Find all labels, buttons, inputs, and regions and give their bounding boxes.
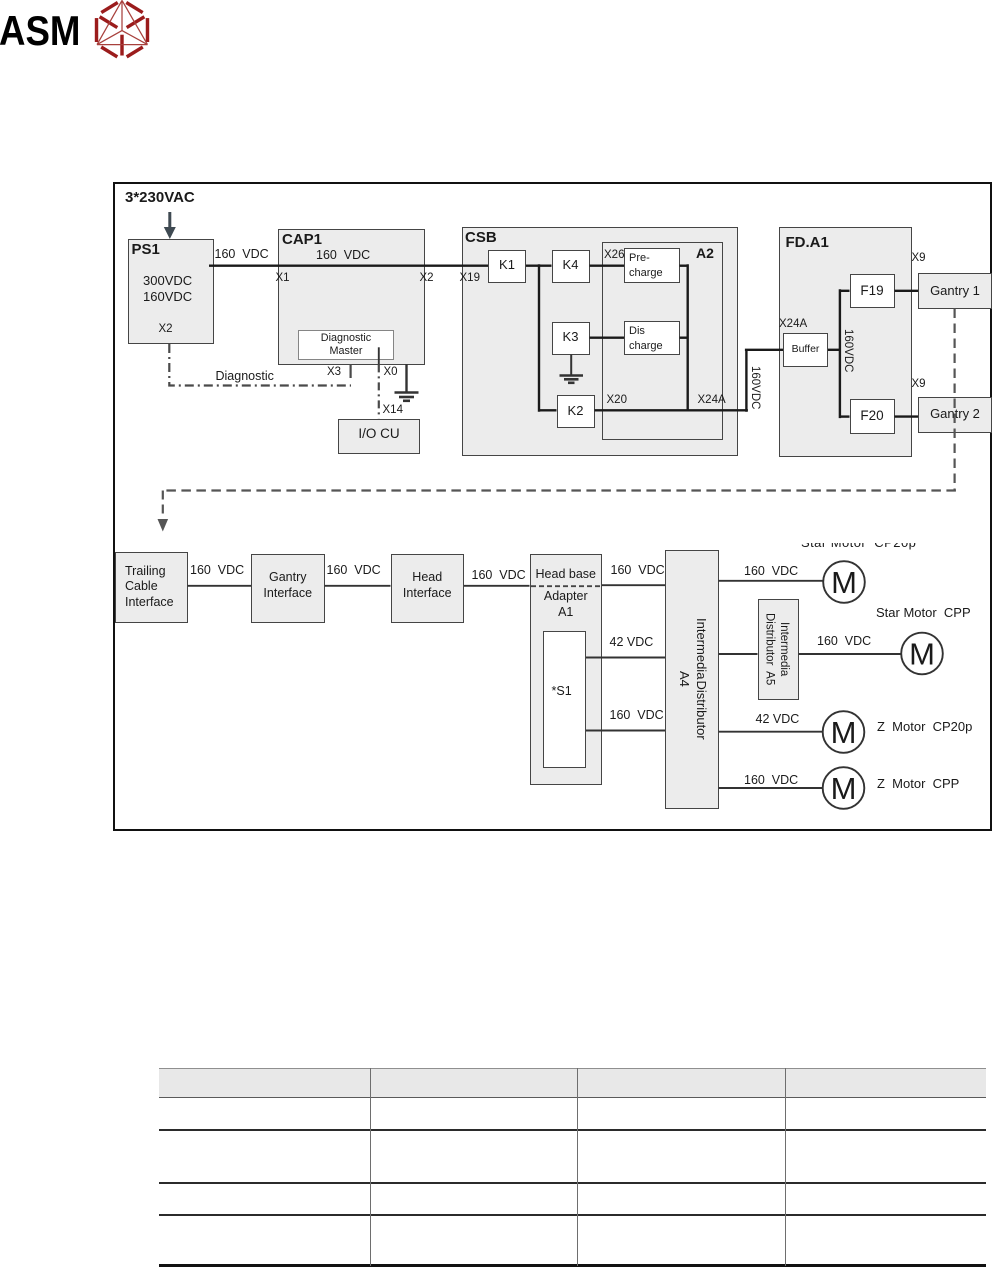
motor M Z CPP	[823, 767, 865, 809]
discharge unit	[624, 321, 680, 355]
wire K3 to discharge	[590, 337, 625, 339]
ASM logo hexagon icon	[0, 0, 993, 80]
label Star Motor CPP	[876, 606, 971, 620]
wire K1 to node	[526, 265, 552, 267]
Gantry 2 box	[918, 397, 992, 433]
Intermedia Distributor A4 box	[665, 550, 719, 809]
fuse distributor FD.A1	[779, 227, 912, 457]
label 3*230VAC	[125, 190, 195, 207]
text Intermedia Distributor A5 vertical	[762, 599, 791, 699]
capacitor unit CAP1	[278, 229, 425, 365]
label X9 bottom	[912, 378, 926, 391]
label 42 VDC motor3	[756, 713, 800, 727]
text Gantry Interface	[251, 570, 325, 602]
text K1	[488, 258, 526, 272]
text Pre-charge	[629, 251, 663, 280]
text Intermedia Distributor A4 vertical	[676, 550, 710, 808]
text Discharge	[629, 324, 663, 353]
ground stem K3	[570, 355, 572, 375]
wire S1 to A4 42VDC	[586, 657, 665, 659]
wire pre-charge to right bus	[680, 265, 688, 267]
wire K4 to pre-charge	[590, 265, 625, 267]
Diagnostic Master module	[298, 330, 394, 360]
switch S1 box	[543, 631, 586, 768]
CSB box	[462, 227, 738, 457]
text PS1 300VDC 160VDC	[143, 273, 192, 305]
I/O CU box	[338, 419, 420, 454]
svg-text:M: M	[831, 715, 857, 750]
X3 stub wire	[350, 364, 352, 378]
wire A5 to star motor CPP	[799, 653, 902, 655]
label 160 VDC after PS1	[215, 248, 269, 262]
label X1	[276, 272, 290, 285]
motor M Z CP20p	[823, 711, 865, 753]
buffer module	[783, 333, 828, 367]
wire F20 to Gantry 2	[895, 415, 919, 417]
text S1	[552, 685, 572, 699]
dashed link horizontal	[164, 489, 956, 491]
module A2	[602, 242, 723, 440]
label 160 VDC motor2	[817, 635, 871, 649]
wire bus to F19	[840, 290, 850, 292]
wire A4 to A5	[719, 653, 758, 655]
svg-text:M: M	[831, 565, 857, 600]
label X24A at Buffer	[779, 318, 807, 331]
contactor K1	[488, 250, 526, 283]
label A2	[696, 246, 714, 261]
table row line 2	[159, 1182, 986, 1184]
table column separator 3	[785, 1068, 786, 1266]
label X19	[460, 272, 480, 285]
table row line 3	[159, 1214, 986, 1216]
label FD.A1	[786, 235, 829, 252]
text Gantry 2	[918, 407, 992, 421]
contactor K2	[557, 395, 595, 428]
label X24A at A2	[698, 394, 726, 407]
wire A4 to star motor CP20p	[719, 580, 824, 582]
text I/O CU	[338, 427, 420, 442]
wire S1 to A4 160VDC	[586, 730, 665, 732]
vertical fuse bus 160VDC	[839, 289, 841, 418]
table header row	[159, 1068, 986, 1099]
contactor K4	[552, 250, 590, 283]
wire TCI to Gantry Interface	[188, 585, 252, 587]
svg-text:M: M	[831, 771, 857, 806]
label 160 VDC left lower	[610, 709, 664, 723]
wire A4 to Z motor CPP	[719, 787, 823, 789]
text Head base	[530, 568, 603, 582]
wire PS1 to K1 160VDC bus	[209, 265, 488, 267]
input arrow 3*230VAC	[164, 212, 176, 239]
Trailing Cable Interface box	[115, 552, 188, 623]
label X0	[384, 366, 398, 379]
text F19	[850, 284, 895, 299]
label 160 VDC in CAP1	[316, 249, 370, 263]
text K2	[557, 404, 595, 418]
wire Head base to A4 160VDC	[602, 584, 665, 586]
vertical bus K1-K2	[538, 264, 540, 412]
dashed link Gantry1/2 down	[953, 309, 955, 492]
label X26	[604, 249, 624, 262]
label 160 VDC right of head base	[611, 564, 665, 578]
label Diagnostic	[216, 370, 274, 384]
label 160 VDC lower 3	[472, 569, 526, 583]
wire bus to F20	[840, 415, 850, 417]
label 160VDC vertical FD.A1	[842, 329, 855, 372]
vertical wire 160VDC riser	[745, 350, 747, 412]
power supply PS1	[128, 239, 214, 344]
table column separator 2	[577, 1068, 578, 1266]
wire Buffer to fuse bus	[828, 349, 840, 351]
svg-text:M: M	[909, 637, 935, 672]
X0 stub wire from Diagnostic Master	[378, 347, 380, 364]
motor M star CPP	[901, 633, 943, 675]
text K4	[552, 258, 590, 272]
label X3	[327, 366, 341, 379]
Gantry 1 box	[918, 273, 992, 309]
diagram outer frame	[113, 182, 992, 831]
vertical bus A2 right	[687, 264, 689, 410]
fuse F20	[850, 399, 895, 435]
label CSB	[465, 230, 497, 247]
dashed link arrow down	[158, 491, 169, 532]
Gantry Interface box	[251, 554, 325, 623]
text Head Interface	[391, 570, 465, 602]
text Adapter A1	[530, 588, 603, 621]
table row line 1	[159, 1129, 986, 1131]
label X20	[607, 394, 627, 407]
label X2 at CAP1	[420, 272, 434, 285]
fuse F19	[850, 274, 895, 309]
label 160 VDC motor4	[744, 774, 798, 788]
label X14	[383, 404, 403, 417]
wire K2 to X24A exit	[595, 409, 748, 411]
label CAP1	[282, 232, 322, 249]
text Buffer	[783, 344, 828, 356]
wire discharge to right bus	[680, 337, 688, 339]
label 160 VDC lower 1	[190, 564, 244, 578]
X14 dash-dot wire to I/O CU	[378, 364, 380, 418]
wire F19 to Gantry 1	[895, 290, 919, 292]
label Z Motor CP20p	[877, 720, 972, 734]
wire Gantry Interface to Head Interface	[325, 585, 391, 587]
table column separator 1	[370, 1068, 371, 1266]
Head Interface box	[391, 554, 465, 623]
motor M star CP20p	[823, 561, 865, 603]
label 160 VDC lower 2	[327, 564, 381, 578]
label Z Motor CPP	[877, 777, 959, 791]
wire riser to Buffer	[745, 349, 783, 351]
diagnostic dash-dot from PS1 X2	[169, 344, 351, 386]
label 160 VDC motor1	[744, 565, 798, 579]
text Diagnostic Master	[298, 332, 394, 358]
label X2 in PS1	[159, 323, 173, 336]
wire Head Interface to Head base	[464, 585, 530, 587]
ASM logo wordmark	[0, 8, 80, 54]
text Gantry 1	[918, 284, 992, 298]
wire A4 to Z motor CP20p	[719, 731, 823, 733]
dashed separator in Head base box	[531, 585, 601, 587]
ground symbol CAP1	[395, 393, 419, 401]
text K3	[552, 330, 590, 344]
pre-charge unit	[624, 248, 680, 283]
label X9 top	[912, 252, 926, 265]
text F20	[850, 409, 895, 424]
wire node to K2	[539, 409, 557, 411]
ground stem CAP1	[405, 364, 407, 392]
Intermedia Distributor A5 box	[758, 599, 799, 700]
table bottom line	[159, 1264, 986, 1266]
text Trailing Cable Interface	[125, 564, 174, 611]
Head base Adapter A1 box	[530, 554, 603, 785]
label 42 VDC left	[610, 636, 654, 650]
label Star Motor CP20p clipped	[795, 543, 925, 555]
label 160VDC vertical CSB	[749, 366, 762, 409]
label PS1	[132, 242, 160, 259]
contactor K3	[552, 322, 590, 355]
ground symbol K3	[560, 376, 584, 383]
